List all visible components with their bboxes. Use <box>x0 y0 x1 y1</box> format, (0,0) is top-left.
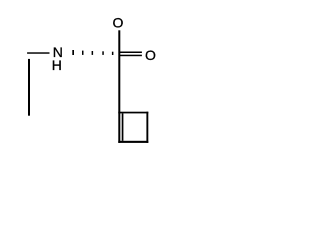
cyclobutene ring top edge <box>118 112 148 114</box>
bond CH2-N (horizontal) <box>27 52 49 53</box>
svg-text:O: O <box>145 47 156 63</box>
cyclobutene ring double bond inner line <box>122 113 124 140</box>
svg-text:H: H <box>52 57 62 73</box>
cyclobutene ring bottom edge <box>118 141 148 143</box>
hashed bond N-C tick 1 <box>72 50 74 55</box>
hashed bond N-C tick 3 <box>92 51 94 55</box>
double bond C=O upper line <box>119 52 142 54</box>
hashed bond N-C tick 4 <box>102 51 104 55</box>
hashed bond N-C tick 5 <box>112 52 114 55</box>
bond C-O vertical + ring left edge (continuous vertical line) <box>118 30 120 143</box>
bond CH3-CH2 (ethyl vertical) <box>28 59 30 116</box>
svg-text:O: O <box>113 15 124 31</box>
cyclobutene ring right edge <box>146 112 148 143</box>
double bond C=O lower line <box>119 55 142 57</box>
hashed bond N-C tick 2 <box>82 51 84 55</box>
